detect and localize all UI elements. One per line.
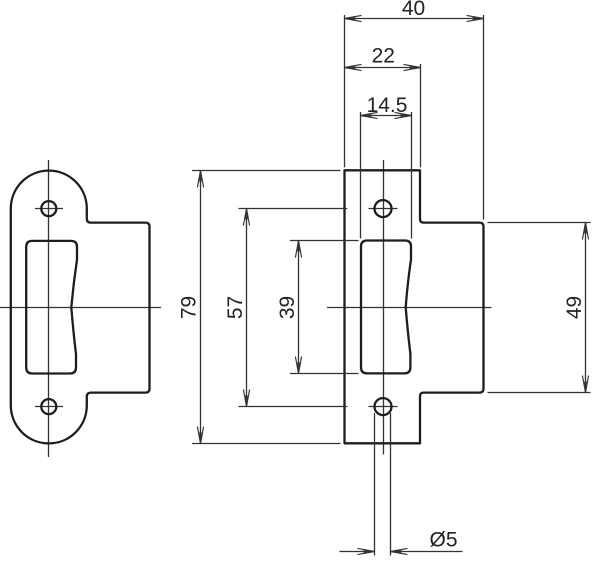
arrow 39 bottom [295, 357, 301, 374]
dim 22 extension right [420, 64, 422, 167]
svg-text:57: 57 [224, 296, 247, 319]
dim dia5 extension right [390, 413, 392, 556]
dim dia5 line left [340, 551, 375, 553]
dim 57 extension top [239, 208, 348, 210]
dim 49 extension bottom [488, 392, 591, 394]
dim 40 extension right [483, 15, 485, 220]
bottom screw hole right view [375, 398, 392, 415]
dim 57 line [246, 209, 248, 407]
svg-text:Ø5: Ø5 [429, 529, 457, 552]
centerline horizontal left view [0, 307, 161, 309]
arrow 49 bottom [582, 376, 588, 393]
arrow 14.5 left [361, 112, 378, 118]
dim 39 extension top [290, 240, 359, 242]
dim dia5 extension left [374, 413, 376, 556]
plate outline right view [345, 170, 484, 443]
arrow 79 top [197, 171, 203, 188]
top screw hole right view [375, 200, 392, 217]
crosshair top hole left view [35, 208, 63, 210]
dim 79 extension bottom [192, 443, 341, 445]
arrow 40 left [345, 15, 362, 21]
svg-text:79: 79 [178, 296, 201, 319]
top screw hole left view [41, 201, 56, 216]
latch cutout right view [361, 241, 411, 374]
bottom screw hole left view [41, 399, 56, 414]
dim 14.5 extension right [411, 112, 413, 239]
arrow 49 top [582, 223, 588, 240]
arrow 79 bottom [197, 427, 203, 444]
svg-text:40: 40 [402, 0, 425, 20]
dim 14.5 extension left [360, 112, 362, 239]
dim 39 line [298, 241, 300, 374]
svg-text:39: 39 [276, 296, 299, 319]
svg-text:14.5: 14.5 [367, 94, 408, 117]
arrow 40 right [467, 15, 484, 21]
centerline vertical right view [383, 160, 385, 455]
dim 14.5 line [361, 115, 412, 117]
dim dia5 line right [391, 551, 463, 553]
dim 79 line [200, 171, 202, 444]
arrow 14.5 right [395, 112, 412, 118]
arrowheads [197, 15, 588, 554]
arrow dia5 right [391, 548, 408, 554]
dim 79 extension top [192, 170, 341, 172]
centerline horizontal right view [327, 307, 492, 309]
dim 40 line [345, 18, 484, 20]
crosshair bottom hole left view [35, 406, 63, 408]
arrow 57 top [243, 209, 249, 226]
dim 22 line [345, 67, 421, 69]
dim 40 extension left [344, 15, 346, 167]
arrow dia5 left [358, 548, 375, 554]
dimension texts [178, 0, 587, 552]
dim 39 extension bottom [290, 373, 359, 375]
dim 49 line [585, 223, 587, 393]
latch cutout left view [26, 241, 77, 374]
svg-text:49: 49 [563, 296, 586, 319]
crosshair top hole right view [369, 208, 398, 210]
arrow 22 left [345, 64, 362, 70]
arrow 39 top [295, 241, 301, 258]
svg-text:22: 22 [372, 45, 395, 68]
dim 49 extension top [488, 222, 591, 224]
arrow 22 right [404, 64, 421, 70]
plate outline left view [11, 171, 150, 444]
centerline vertical left view [48, 160, 50, 457]
crosshair bottom hole right view [369, 406, 398, 408]
dim 57 extension bottom [239, 406, 348, 408]
arrow 57 bottom [243, 390, 249, 407]
